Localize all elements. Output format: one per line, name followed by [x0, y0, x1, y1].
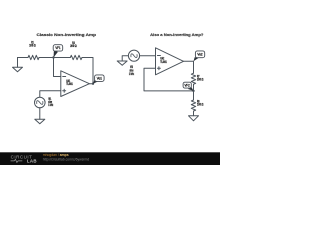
resistor R1: [28, 55, 39, 59]
text labels: [29, 32, 204, 107]
source Vi2: [128, 50, 139, 61]
svg-text:Vo1: Vo1: [97, 76, 102, 80]
node: OA1 output junction: [92, 83, 94, 85]
svg-text:TL081: TL081: [160, 60, 167, 64]
resistor R8 (vertical): [191, 100, 195, 111]
svg-text:Also a Non-inverting Amp?: Also a Non-inverting Amp?: [150, 32, 204, 37]
svg-text:100 Ω: 100 Ω: [197, 103, 203, 107]
source Vi1: [35, 97, 46, 108]
OA1 minus marker: [63, 76, 66, 78]
ground G2 (below Vi1): [35, 119, 45, 124]
resistor R2: [70, 55, 82, 59]
wire R7 to R8 with junction: [193, 84, 195, 100]
flag Vo2: [194, 51, 205, 61]
resistor R7 (vertical): [191, 73, 195, 84]
svg-text:200 Ω: 200 Ω: [197, 78, 203, 82]
ground G3 (left of Vi2): [117, 56, 128, 66]
svg-text:VF1: VF1: [55, 46, 60, 50]
wire Vi2 to OA2 inverting input: [140, 55, 156, 57]
node: R1/R2/OA1- junction: [52, 56, 54, 58]
node: R7/R8/feedback junction: [192, 90, 194, 92]
OA1 plus marker: [63, 89, 66, 92]
OA2 minus marker: [157, 55, 160, 57]
wire OA1 non-inverting input to Vi1: [40, 91, 61, 98]
svg-text:1 kHz: 1 kHz: [129, 72, 134, 76]
flag VF1: [53, 45, 63, 58]
bottom credit bar: [0, 152, 220, 165]
ground G1 (left of R1): [13, 58, 23, 72]
CircuitLab logo: [11, 155, 37, 164]
flag VF2: [183, 82, 193, 91]
svg-text:LAB: LAB: [27, 159, 37, 164]
OA1 output wire: [89, 83, 93, 85]
svg-text:Vo2: Vo2: [197, 53, 202, 57]
svg-text:http://circuitlab.com/c/6ywsrm: http://circuitlab.com/c/6ywsrmd: [43, 157, 89, 161]
wire ground to R1: [18, 57, 29, 59]
svg-text:VF2: VF2: [185, 83, 190, 87]
wire R8 to ground: [193, 111, 195, 116]
junction dots: [52, 56, 194, 92]
op-amp OA1 triangle: [61, 71, 90, 97]
svg-text:200 Ω: 200 Ω: [70, 44, 77, 48]
wire Vi1 to ground: [39, 108, 41, 119]
OA2 plus marker: [157, 67, 160, 70]
wire R1 to junction to R2: [39, 57, 70, 59]
OA2 output wire, corner down to R7: [184, 61, 194, 73]
feedback wire: junction to OA2 non-inverting input: [144, 68, 194, 91]
svg-text:TL081: TL081: [66, 82, 73, 86]
wire junction down to OA1 inverting input: [54, 58, 61, 77]
ground G4 (below R8): [189, 116, 199, 121]
svg-text:Classic Non-inverting Amp: Classic Non-inverting Amp: [37, 32, 97, 37]
svg-text:100 Ω: 100 Ω: [29, 44, 36, 48]
wire R2 right, corner down to output node: [82, 58, 93, 84]
flag Vo1: [93, 75, 104, 84]
svg-text:1 kHz: 1 kHz: [48, 103, 53, 107]
op-amp OA2 triangle: [156, 48, 184, 75]
credit text: [43, 153, 89, 161]
